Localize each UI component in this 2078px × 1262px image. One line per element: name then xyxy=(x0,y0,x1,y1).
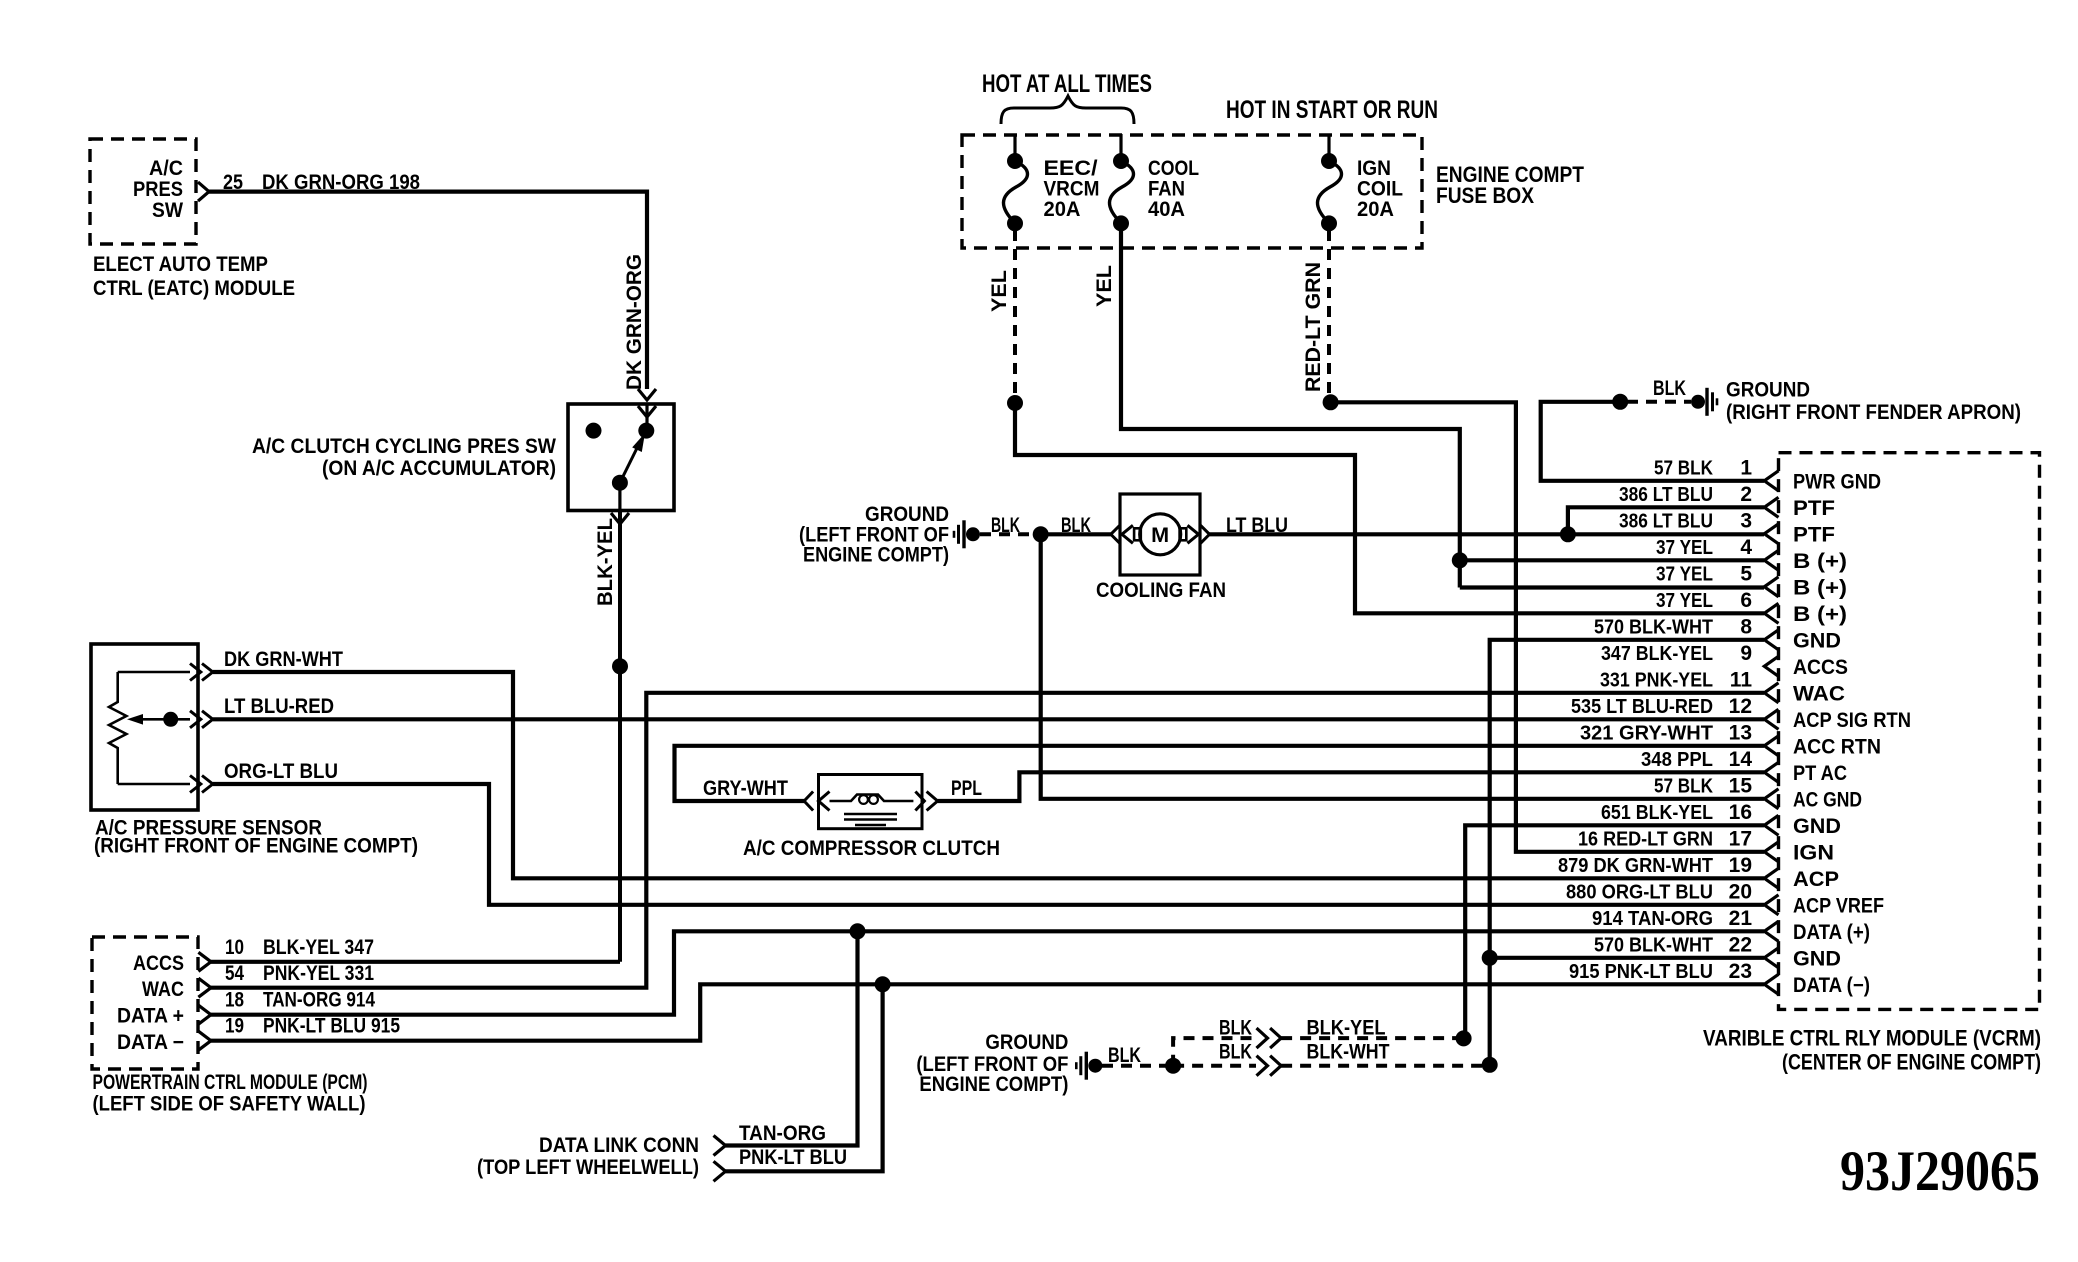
svg-text:18: 18 xyxy=(225,989,244,1012)
svg-text:15: 15 xyxy=(1729,774,1753,797)
wire: ORG-LT BLU to VCRM pin 20 ACP VREF xyxy=(213,784,1764,905)
wire: 570 BLK-WHT riser to VCRM pins 8 and 22 GND xyxy=(1490,640,1764,1065)
junction: BLK splice xyxy=(1612,394,1628,410)
junction: BLK splice at cooling fan xyxy=(1033,526,1049,542)
svg-text:DK GRN-WHT: DK GRN-WHT xyxy=(224,648,343,671)
junction: YEL splice xyxy=(1007,395,1023,411)
svg-text:93J29065: 93J29065 xyxy=(1840,1140,2040,1203)
label: 18 TAN-ORG 914 xyxy=(225,989,375,1012)
svg-text:SW: SW xyxy=(152,199,183,222)
svg-text:AC GND: AC GND xyxy=(1793,788,1862,811)
svg-text:(TOP LEFT WHEELWELL): (TOP LEFT WHEELWELL) xyxy=(477,1156,699,1179)
sensor: A/C PRESSURE SENSOR (potentiometer) xyxy=(91,644,198,810)
svg-text:20: 20 xyxy=(1729,880,1752,903)
svg-text:DK GRN-ORG 198: DK GRN-ORG 198 xyxy=(262,171,420,194)
label: BLK (solid segment) xyxy=(1061,514,1091,537)
svg-text:13: 13 xyxy=(1729,721,1752,744)
junction: bottom BLK splice xyxy=(1165,1058,1181,1074)
VCRM pin 4 B (+): wire 37 YEL xyxy=(1764,550,1778,570)
svg-text:CTRL (EATC) MODULE: CTRL (EATC) MODULE xyxy=(93,277,295,300)
connector: DATA LINK CONN (TOP LEFT WHEELWELL) xyxy=(714,1136,726,1182)
svg-text:VARIBLE CTRL RLY MODULE (VCRM): VARIBLE CTRL RLY MODULE (VCRM) xyxy=(1703,1025,2041,1050)
VCRM pin 2 PTF: wire 386 LT BLU xyxy=(1764,497,1778,517)
wire: PNK-LT BLU from data link conn xyxy=(726,984,883,1171)
svg-text:54: 54 xyxy=(225,962,244,985)
svg-text:DATA (−): DATA (−) xyxy=(1793,974,1870,997)
drawing number: 93J29065 xyxy=(1840,1140,2040,1203)
svg-text:12: 12 xyxy=(1729,695,1752,718)
svg-text:BLK-YEL: BLK-YEL xyxy=(1307,1017,1386,1040)
svg-text:ACC RTN: ACC RTN xyxy=(1793,735,1881,758)
VCRM pin 17 IGN: wire 16 RED-LT GRN xyxy=(1764,842,1778,862)
fuse COOL FAN 40A xyxy=(1119,134,1122,161)
VCRM pin 3 PTF: wire 386 LT BLU xyxy=(1764,524,1778,544)
junction: YEL tee to VCRM pin 4 xyxy=(1452,552,1468,568)
svg-text:PNK-LT BLU: PNK-LT BLU xyxy=(739,1146,847,1169)
svg-text:651 BLK-YEL: 651 BLK-YEL xyxy=(1601,801,1713,824)
wire: 386 LT BLU to VCRM pin 2 PTF xyxy=(1568,507,1764,534)
coil: A/C COMPRESSOR CLUTCH xyxy=(819,775,923,829)
svg-text:(RIGHT FRONT FENDER APRON): (RIGHT FRONT FENDER APRON) xyxy=(1726,401,2021,424)
svg-text:B (+): B (+) xyxy=(1793,550,1847,573)
svg-text:57 BLK: 57 BLK xyxy=(1654,774,1713,797)
svg-text:IGN: IGN xyxy=(1793,841,1834,864)
svg-text:TAN-ORG 914: TAN-ORG 914 xyxy=(263,989,375,1012)
label: YEL (vertical, EEC fuse) xyxy=(988,270,1011,312)
svg-text:WAC: WAC xyxy=(142,978,184,1001)
svg-text:(RIGHT FRONT OF ENGINE COMPT): (RIGHT FRONT OF ENGINE COMPT) xyxy=(94,835,418,858)
wire: GRY-WHT to VCRM pin 13 ACC RTN xyxy=(675,746,1765,801)
svg-text:YEL: YEL xyxy=(1093,265,1116,307)
svg-text:(LEFT SIDE OF SAFETY WALL): (LEFT SIDE OF SAFETY WALL) xyxy=(93,1093,366,1116)
label: LT BLU xyxy=(1226,514,1288,537)
wire: 915 PNK-LT BLU to VCRM pin 23 DATA (-) xyxy=(883,982,1764,986)
svg-text:ENGINE COMPT): ENGINE COMPT) xyxy=(803,544,949,567)
svg-text:348 PPL: 348 PPL xyxy=(1641,748,1713,771)
svg-text:BLK: BLK xyxy=(1061,514,1091,537)
label: 54 PNK-YEL 331 xyxy=(225,962,374,985)
inline connector chevrons BLK-WHT row xyxy=(1257,1056,1282,1076)
svg-text:10: 10 xyxy=(225,936,244,959)
svg-text:A/C COMPRESSOR CLUTCH: A/C COMPRESSOR CLUTCH xyxy=(743,837,1000,860)
svg-text:BLK: BLK xyxy=(991,514,1020,537)
VCRM pin 23 DATA (−): wire 915 PNK-LT BLU xyxy=(1764,974,1778,994)
label: BLK (dashed segment) xyxy=(991,514,1020,537)
svg-text:RED-LT GRN: RED-LT GRN xyxy=(1302,262,1325,392)
svg-text:LT BLU-RED: LT BLU-RED xyxy=(224,695,334,718)
svg-text:331 PNK-YEL: 331 PNK-YEL xyxy=(1600,668,1713,691)
svg-text:37 YEL: 37 YEL xyxy=(1656,536,1713,559)
label: DK GRN-WHT xyxy=(224,648,343,671)
svg-text:DATA +: DATA + xyxy=(117,1005,184,1028)
svg-text:A/C CLUTCH CYCLING PRES SW: A/C CLUTCH CYCLING PRES SW xyxy=(252,435,556,458)
sensor pin chevrons xyxy=(190,664,213,793)
svg-text:TAN-ORG: TAN-ORG xyxy=(739,1122,826,1145)
module: VARIBLE CTRL RLY MODULE (VCRM) xyxy=(1779,453,2040,1010)
svg-text:1: 1 xyxy=(1740,456,1752,479)
wire: BLK-WHT dashed to GND riser xyxy=(1281,1064,1482,1068)
svg-text:3: 3 xyxy=(1740,509,1752,532)
svg-text:DATA LINK CONN: DATA LINK CONN xyxy=(539,1134,699,1157)
label: 10 BLK-YEL 347 xyxy=(225,936,374,959)
wire: BLK dashed branch up to BLK-YEL row xyxy=(1173,1038,1256,1066)
label: RED-LT GRN (vertical) xyxy=(1302,262,1325,392)
VCRM pin 15 AC GND: wire 57 BLK xyxy=(1764,789,1778,809)
svg-text:BLK: BLK xyxy=(1108,1044,1141,1067)
svg-text:PNK-YEL 331: PNK-YEL 331 xyxy=(263,962,374,985)
label: A/C PRESSURE SENSOR (RIGHT FRONT OF ENGINE COMPT) xyxy=(94,817,418,858)
svg-text:(ON A/C ACCUMULATOR): (ON A/C ACCUMULATOR) xyxy=(322,457,556,480)
wire: to VCRM pin 4 B(+) xyxy=(1460,558,1764,562)
fuse box: ENGINE COMPT FUSE BOX xyxy=(962,135,1422,248)
svg-text:19: 19 xyxy=(225,1015,244,1038)
wire: 19 PNK-LT BLU 915 from PCM DATA- xyxy=(211,984,883,1040)
VCRM pin 11 WAC: wire 331 PNK-YEL xyxy=(1764,683,1778,703)
ground: LEFT FRONT OF ENGINE COMPT (bottom) xyxy=(1076,1052,1102,1080)
junction: BLK-WHT riser dot xyxy=(1482,1057,1498,1073)
svg-text:POWERTRAIN CTRL MODULE (PCM): POWERTRAIN CTRL MODULE (PCM) xyxy=(93,1071,368,1094)
svg-text:321 GRY-WHT: 321 GRY-WHT xyxy=(1580,721,1713,744)
svg-text:PRES: PRES xyxy=(133,178,183,201)
switch contact dots xyxy=(586,423,655,491)
label: POWERTRAIN CTRL MODULE (PCM) (LEFT SIDE OF SAFETY WALL) xyxy=(93,1071,368,1116)
wire: RED-LT GRN from IGN COIL fuse (dashed) xyxy=(1327,230,1331,396)
label: A/C COMPRESSOR CLUTCH xyxy=(743,837,1000,860)
svg-text:ACP VREF: ACP VREF xyxy=(1793,894,1884,917)
wire: PPL to VCRM pin 14 PT AC xyxy=(938,772,1764,801)
inline connector chevrons into cycling switch xyxy=(638,389,656,431)
wire: YEL from COOL FAN fuse xyxy=(1121,230,1460,588)
svg-text:8: 8 xyxy=(1740,615,1752,638)
svg-text:6: 6 xyxy=(1740,589,1752,612)
svg-text:20A: 20A xyxy=(1044,198,1081,221)
label: ELECT AUTO TEMP CTRL (EATC) MODULE xyxy=(93,253,295,300)
svg-text:DATA −: DATA − xyxy=(117,1031,184,1054)
svg-text:22: 22 xyxy=(1729,933,1752,956)
VCRM pin 5 B (+): wire 37 YEL xyxy=(1764,577,1778,597)
svg-text:ACP: ACP xyxy=(1793,868,1839,891)
wire: 651 BLK-YEL riser to VCRM pin 16 GND xyxy=(1465,825,1764,1038)
svg-text:FUSE BOX: FUSE BOX xyxy=(1436,183,1534,208)
svg-text:DK GRN-ORG: DK GRN-ORG xyxy=(623,254,646,390)
VCRM pin 13 ACC RTN: wire 321 GRY-WHT xyxy=(1764,736,1778,756)
svg-text:20A: 20A xyxy=(1357,198,1394,221)
fuse IGN COIL 20A xyxy=(1327,135,1330,161)
label: HOT AT ALL TIMES xyxy=(982,70,1152,98)
wire: 57 BLK to VCRM pin 1 PWR GND xyxy=(1541,402,1764,481)
wire: 57 BLK fan ground down to VCRM pin 15 AC GND xyxy=(1041,534,1764,799)
VCRM pin 21 DATA (+): wire 914 TAN-ORG xyxy=(1764,921,1778,941)
svg-text:COOLING FAN: COOLING FAN xyxy=(1096,579,1226,602)
label: HOT IN START OR RUN xyxy=(1226,96,1438,124)
label: COOLING FAN xyxy=(1096,579,1226,602)
junction: DATA+ tee xyxy=(850,923,866,939)
label: GROUND (LEFT FRONT OF ENGINE COMPT) xyxy=(799,503,949,567)
svg-text:535 LT BLU-RED: 535 LT BLU-RED xyxy=(1571,695,1713,718)
svg-text:BLK-YEL: BLK-YEL xyxy=(594,518,617,606)
junction: DATA- tee xyxy=(875,976,891,992)
label: VARIBLE CTRL RLY MODULE (VCRM) (CENTER OF ENGINE COMPT) xyxy=(1703,1025,2041,1074)
label: GRY-WHT xyxy=(703,777,788,800)
svg-text:16 RED-LT GRN: 16 RED-LT GRN xyxy=(1578,827,1713,850)
wire: to VCRM pin 22 GND xyxy=(1490,956,1764,960)
junction: BLK-YEL riser dot xyxy=(1456,1030,1472,1046)
svg-text:347 BLK-YEL: 347 BLK-YEL xyxy=(1601,642,1713,665)
svg-text:23: 23 xyxy=(1729,960,1752,983)
VCRM pin 6 B (+): wire 37 YEL xyxy=(1764,603,1778,623)
svg-text:ELECT AUTO TEMP: ELECT AUTO TEMP xyxy=(93,253,268,276)
wire: BLK-YEL dashed to GND riser xyxy=(1281,1036,1456,1040)
svg-text:WAC: WAC xyxy=(1793,682,1845,705)
wire: 386 LT BLU to VCRM pin 3 PTF xyxy=(1568,532,1764,536)
VCRM pin 14 PT AC: wire 348 PPL xyxy=(1764,762,1778,782)
label: ORG-LT BLU xyxy=(224,760,338,783)
wire: LT BLU-RED to VCRM pin 12 ACP SIG RTN xyxy=(213,717,1764,721)
label: YEL (vertical, COOL FAN fuse) xyxy=(1093,265,1116,307)
ground: RIGHT FRONT FENDER APRON xyxy=(1691,388,1717,416)
svg-text:HOT IN START OR RUN: HOT IN START OR RUN xyxy=(1226,96,1438,124)
labels: BLK / BLK xyxy=(1219,1017,1252,1064)
VCRM pin 12 ACP SIG RTN: wire 535 LT BLU-RED xyxy=(1764,709,1778,729)
wire: BLK dashed to BLK-WHT row xyxy=(1173,1064,1256,1068)
svg-text:YEL: YEL xyxy=(988,270,1011,312)
label: BLK-YEL (vertical) xyxy=(594,518,617,606)
svg-text:ORG-LT BLU: ORG-LT BLU xyxy=(224,760,338,783)
label: 19 PNK-LT BLU 915 xyxy=(225,1015,400,1038)
svg-text:ACCS: ACCS xyxy=(133,952,184,975)
VCRM pin 1 PWR GND: wire 57 BLK xyxy=(1764,471,1778,491)
sensor internal: resistor element and wiper xyxy=(109,672,126,784)
VCRM pin 9 ACCS: wire 347 BLK-YEL xyxy=(1764,656,1778,676)
svg-text:386 LT BLU: 386 LT BLU xyxy=(1619,483,1713,506)
wire: to VCRM pin 17 IGN xyxy=(1331,402,1764,852)
label: LT BLU-RED xyxy=(224,695,334,718)
svg-text:PTF: PTF xyxy=(1793,497,1835,520)
wire: YEL to VCRM pin 6 B(+) xyxy=(1015,403,1764,613)
module: POWERTRAIN CTRL MODULE (PCM) xyxy=(92,937,198,1069)
junction: BLK-YEL tee to VCRM pin 9 xyxy=(612,658,628,674)
motor: COOLING FAN xyxy=(1111,494,1210,575)
svg-text:PWR GND: PWR GND xyxy=(1793,470,1881,493)
svg-text:A/C: A/C xyxy=(149,157,183,180)
label: GROUND (RIGHT FRONT FENDER APRON) xyxy=(1726,379,2021,425)
svg-text:25: 25 xyxy=(223,171,243,194)
svg-text:40A: 40A xyxy=(1148,198,1185,221)
svg-text:GND: GND xyxy=(1793,947,1841,970)
label: ENGINE COMPT FUSE BOX xyxy=(1436,162,1584,208)
label: A/C CLUTCH CYCLING PRES SW xyxy=(252,435,556,480)
svg-text:21: 21 xyxy=(1729,907,1753,930)
svg-text:16: 16 xyxy=(1729,801,1752,824)
svg-text:570 BLK-WHT: 570 BLK-WHT xyxy=(1594,615,1713,638)
wire: BLK dashed from ground to splice xyxy=(1102,1064,1166,1068)
wire: TAN-ORG from data link conn xyxy=(726,931,858,1145)
svg-text:9: 9 xyxy=(1740,642,1752,665)
label: PPL xyxy=(951,777,982,800)
svg-text:PPL: PPL xyxy=(951,777,982,800)
svg-text:4: 4 xyxy=(1740,536,1752,559)
svg-text:880 ORG-LT BLU: 880 ORG-LT BLU xyxy=(1566,880,1713,903)
junction: pin 22 tee xyxy=(1482,950,1498,966)
svg-text:DATA (+): DATA (+) xyxy=(1793,921,1870,944)
label: PNK-LT BLU xyxy=(739,1146,847,1169)
label: DK GRN-ORG (vertical) xyxy=(623,254,646,390)
switch lever with arrowhead xyxy=(620,442,640,483)
svg-text:37 YEL: 37 YEL xyxy=(1656,589,1713,612)
PCM pin arrows xyxy=(198,952,211,1050)
svg-text:914 TAN-ORG: 914 TAN-ORG xyxy=(1592,907,1713,930)
brace under HOT AT ALL TIMES xyxy=(1001,96,1134,124)
svg-text:GND: GND xyxy=(1793,815,1841,838)
svg-text:GND: GND xyxy=(1793,629,1841,652)
svg-text:LT BLU: LT BLU xyxy=(1226,514,1288,537)
svg-text:37 YEL: 37 YEL xyxy=(1656,562,1713,585)
svg-text:PTF: PTF xyxy=(1793,523,1835,546)
svg-text:2: 2 xyxy=(1740,483,1752,506)
wire: BLK solid to cooling fan xyxy=(1041,532,1111,536)
pin 25 arrow of EATC module xyxy=(198,182,209,201)
inline connector chevrons BLK-YEL row xyxy=(1257,1028,1282,1048)
wire: BLK dashed to ground xyxy=(1627,400,1691,404)
svg-text:BLK: BLK xyxy=(1219,1040,1252,1063)
VCRM pin 19 ACP: wire 879 DK GRN-WHT xyxy=(1764,868,1778,888)
svg-text:GROUND: GROUND xyxy=(985,1031,1068,1054)
wire: BLK dashed from ground to splice xyxy=(980,532,1034,536)
svg-text:B (+): B (+) xyxy=(1793,603,1847,626)
svg-text:17: 17 xyxy=(1729,827,1752,850)
svg-text:ENGINE COMPT): ENGINE COMPT) xyxy=(919,1073,1068,1096)
svg-text:M: M xyxy=(1151,524,1169,547)
wire: DK GRN-WHT to VCRM pin 19 ACP xyxy=(213,672,1764,878)
wire: 10 BLK-YEL 347 from PCM ACCS xyxy=(211,960,620,964)
switch: A/C CLUTCH CYCLING PRES SW (ON A/C ACCUMULATOR) xyxy=(568,404,674,511)
junction: RED-LT GRN splice xyxy=(1323,394,1339,410)
VCRM pin 8 GND: wire 570 BLK-WHT xyxy=(1764,630,1778,650)
svg-text:BLK-YEL 347: BLK-YEL 347 xyxy=(263,936,374,959)
svg-text:ACP SIG RTN: ACP SIG RTN xyxy=(1793,709,1911,732)
svg-text:BLK-WHT: BLK-WHT xyxy=(1307,1040,1390,1063)
wire: BLK-YEL from cycling switch down to ACCS net xyxy=(611,483,629,962)
svg-text:915 PNK-LT BLU: 915 PNK-LT BLU xyxy=(1569,960,1713,983)
VCRM pin 16 GND: wire 651 BLK-YEL xyxy=(1764,815,1778,835)
VCRM pin 20 ACP VREF: wire 880 ORG-LT BLU xyxy=(1764,895,1778,915)
svg-text:HOT AT ALL TIMES: HOT AT ALL TIMES xyxy=(982,70,1152,98)
svg-text:B (+): B (+) xyxy=(1793,576,1847,599)
wire: 18 TAN-ORG 914 from PCM DATA+ xyxy=(211,931,858,1014)
svg-text:BLK: BLK xyxy=(1219,1017,1252,1040)
svg-text:19: 19 xyxy=(1729,854,1752,877)
svg-text:PT AC: PT AC xyxy=(1793,762,1847,785)
fuse EEC/VRCM 20A xyxy=(1013,135,1016,161)
svg-text:(CENTER OF ENGINE COMPT): (CENTER OF ENGINE COMPT) xyxy=(1782,1050,2041,1075)
svg-text:ACCS: ACCS xyxy=(1793,656,1848,679)
VCRM pin 22 GND: wire 570 BLK-WHT xyxy=(1764,948,1778,968)
svg-text:11: 11 xyxy=(1730,668,1753,691)
label: 25 xyxy=(223,171,243,194)
wire: 25 DK GRN-ORG 198 from EATC to cycling switch xyxy=(209,192,647,389)
label: TAN-ORG xyxy=(739,1122,826,1145)
svg-text:570 BLK-WHT: 570 BLK-WHT xyxy=(1594,933,1713,956)
module: A/C PRES SW (ELECT AUTO TEMP CTRL (EATC) MODULE) xyxy=(90,139,196,244)
wire: LT BLU from fan to PTF tee xyxy=(1210,532,1568,536)
labels: BLK-YEL / BLK-WHT xyxy=(1307,1017,1390,1064)
svg-text:BLK: BLK xyxy=(1653,377,1686,400)
label: BLK (bottom ground) xyxy=(1108,1044,1141,1067)
junction: PTF tee xyxy=(1560,526,1576,542)
svg-text:57 BLK: 57 BLK xyxy=(1654,456,1713,479)
svg-text:GROUND: GROUND xyxy=(1726,379,1810,402)
svg-text:14: 14 xyxy=(1729,748,1753,771)
wire: 54 PNK-YEL 331 from PCM WAC to VCRM pin 11 xyxy=(211,693,1764,988)
label: DK GRN-ORG 198 xyxy=(262,171,420,194)
label: GROUND (LEFT FRONT OF ENGINE COMPT) bottom xyxy=(916,1031,1068,1096)
svg-text:PNK-LT BLU 915: PNK-LT BLU 915 xyxy=(263,1015,400,1038)
wire: to VCRM pin 5 B(+) xyxy=(1460,585,1764,589)
svg-text:5: 5 xyxy=(1740,562,1752,585)
svg-text:GRY-WHT: GRY-WHT xyxy=(703,777,788,800)
wire: 914 TAN-ORG to VCRM pin 21 DATA (+) xyxy=(858,929,1765,933)
svg-text:386 LT BLU: 386 LT BLU xyxy=(1619,509,1713,532)
label: BLK xyxy=(1653,377,1686,400)
ground: LEFT FRONT OF ENGINE COMPT (cooling fan) xyxy=(954,520,980,548)
svg-text:879 DK GRN-WHT: 879 DK GRN-WHT xyxy=(1558,854,1713,877)
wire: YEL from EEC/VRCM fuse (dashed) to splice xyxy=(1013,230,1017,396)
